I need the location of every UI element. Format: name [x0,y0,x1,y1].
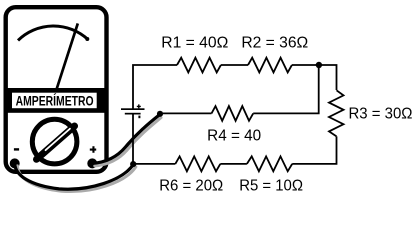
ammeter selector knob [32,119,77,164]
plus terminal post [87,158,97,168]
svg-text:R4 = 40: R4 = 40 [207,128,261,145]
test lead from plus terminal [92,115,159,164]
junction node: top wire / middle branch [316,62,322,68]
lead shadow (minus lead) [17,166,135,192]
test lead from minus terminal [15,163,134,189]
junction node: middle branch / plus lead [157,111,163,117]
wire: between R5 and R6 [220,163,247,165]
junction node: bottom-left (battery minus / bottom wire / minus lead) [130,161,136,167]
resistor R1 [177,58,221,73]
resistor R4 [212,106,254,121]
wire: between R1 and R2 [221,64,248,66]
knob pointer highlight [46,129,71,151]
svg-text:R5 = 10Ω: R5 = 10Ω [239,178,303,195]
wire: R6 to bottom-left junction [133,163,175,165]
ammeter needle [57,23,78,88]
battery B1 short plate [125,113,141,115]
battery minus mark [138,116,140,119]
wire: R2 to top-right corner [292,65,337,90]
lead shadow (plus lead) [95,118,161,166]
wire: battery bottom to bottom-left junction [132,115,134,164]
svg-text:R2 = 36Ω: R2 = 36Ω [241,35,308,52]
svg-text:R1 = 40Ω: R1 = 40Ω [161,35,228,52]
wire: R3 to bottom-right corner and bottom wire right part [292,136,336,164]
ammeter label box [12,93,97,109]
resistor R3 [329,90,344,136]
minus terminal label [14,148,19,150]
plus terminal label [90,146,96,153]
resistor R5 [247,156,292,171]
ammeter M1 body [6,7,107,172]
resistor R2 [248,58,292,73]
wire: top-left vertical (battery branch upper) [133,65,177,109]
wire: R4 to middle-right vertical [253,65,319,113]
resistor R6 [175,156,220,171]
battery B1 long plate [121,108,145,110]
battery plus mark [137,104,141,108]
knob pointer bar [37,126,75,159]
ammeter scale arc [18,26,88,40]
minus terminal post [10,158,20,168]
svg-text:R6 = 20Ω: R6 = 20Ω [159,178,223,195]
ammeter label band [7,88,106,113]
svg-text:AMPERÍMETRO: AMPERÍMETRO [16,93,94,108]
svg-text:R3 = 30Ω: R3 = 30Ω [349,106,413,123]
wire: middle branch R4 [159,112,212,114]
